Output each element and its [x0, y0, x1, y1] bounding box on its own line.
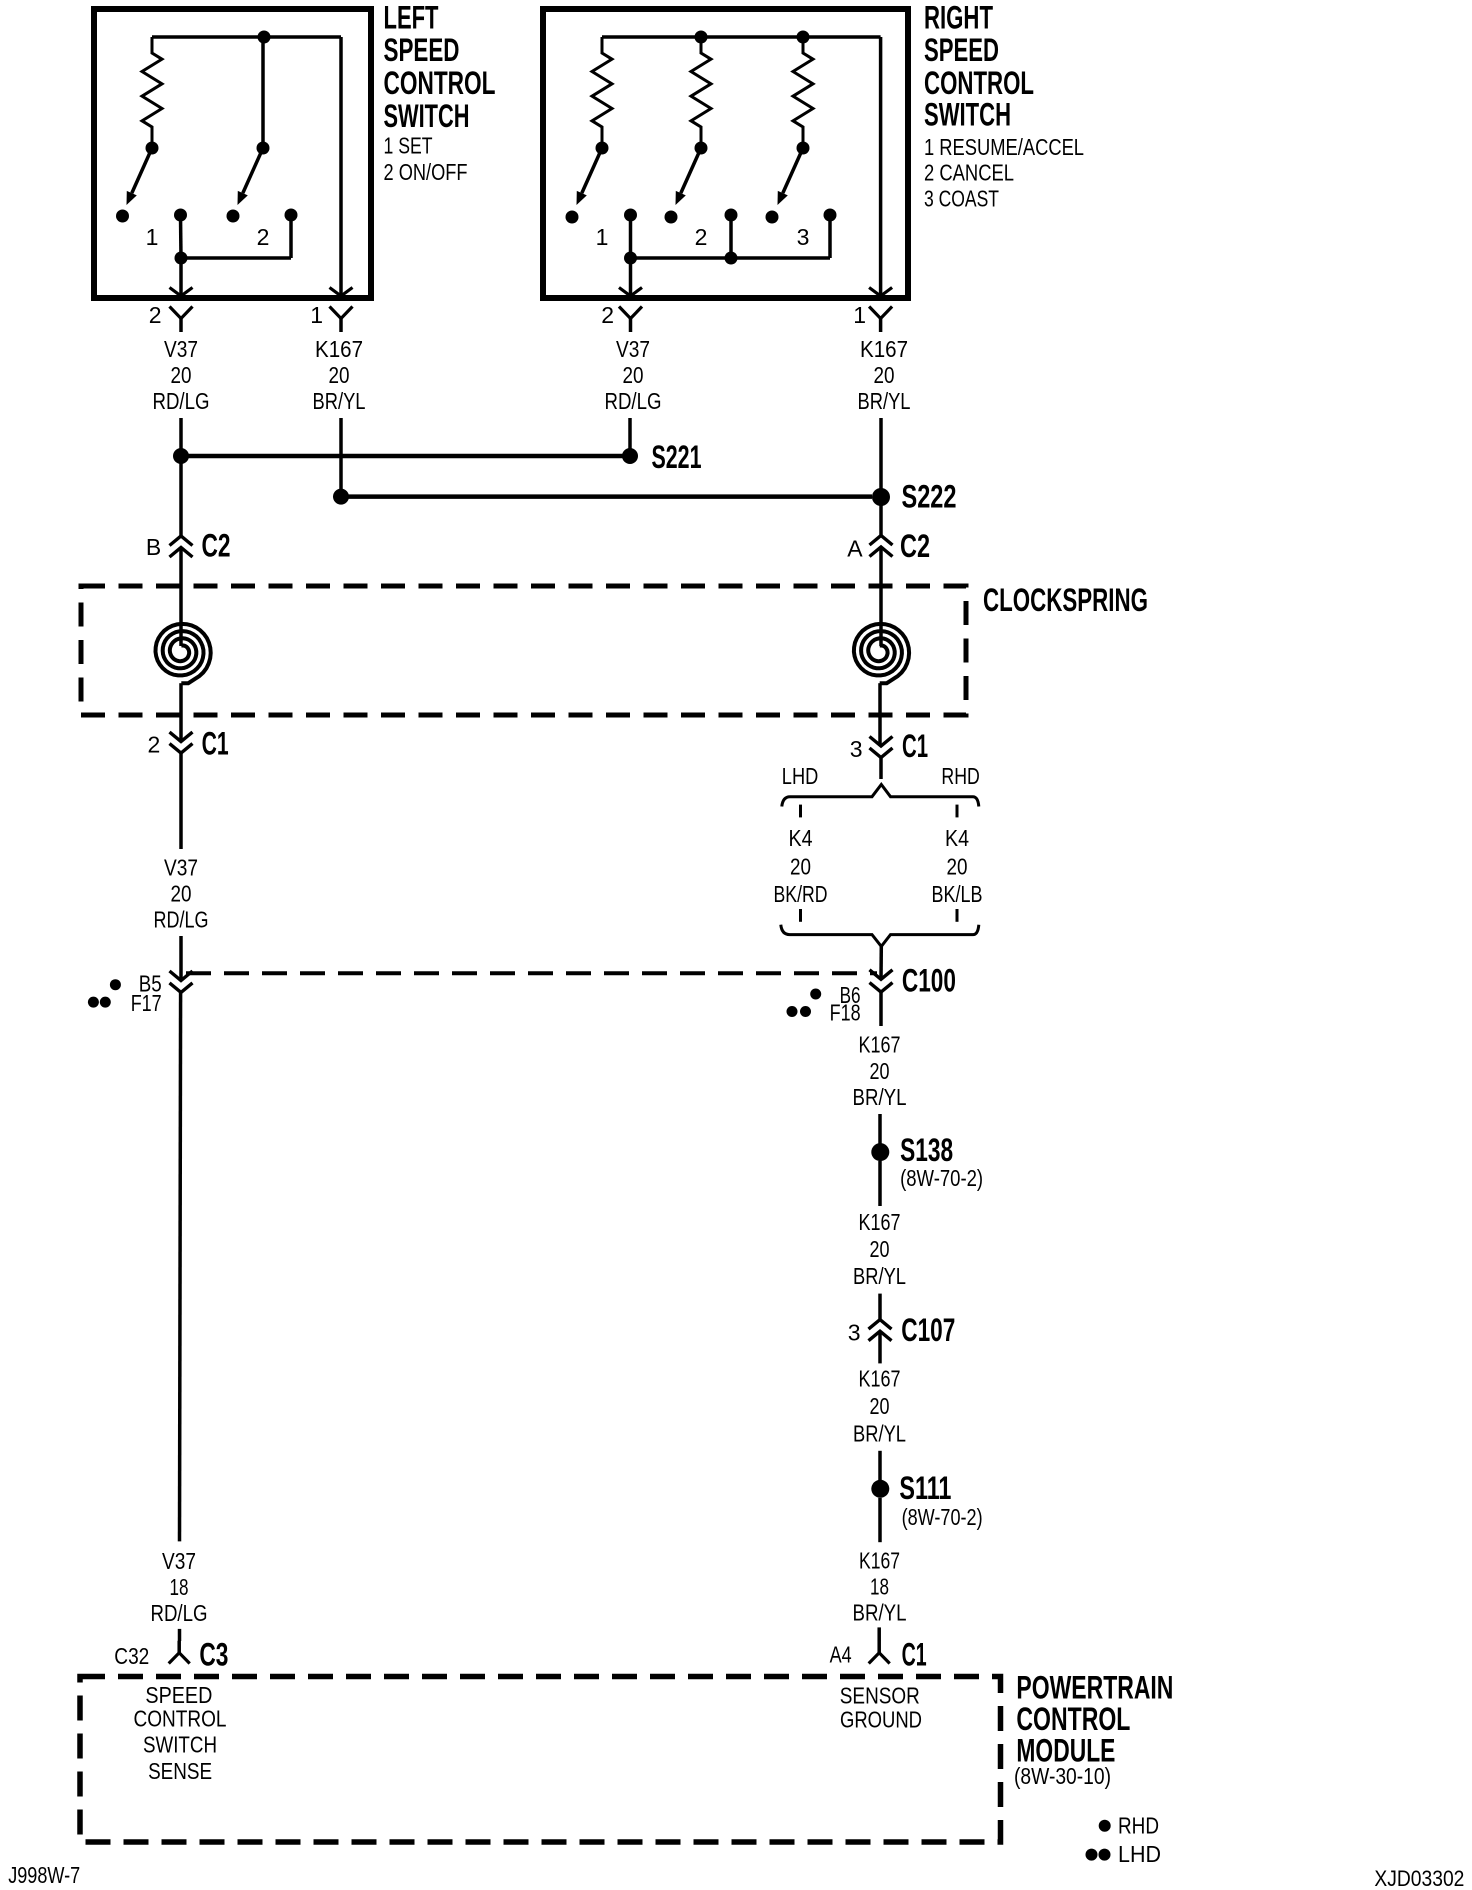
svg-text:C2: C2: [900, 528, 930, 564]
svg-text:RD/LG: RD/LG: [151, 1600, 208, 1626]
svg-text:RHD: RHD: [941, 763, 979, 789]
svg-text:A4: A4: [830, 1642, 852, 1668]
svg-text:SPEED: SPEED: [924, 32, 999, 68]
svg-text:BK/LB: BK/LB: [932, 881, 983, 907]
svg-text:2: 2: [148, 732, 161, 758]
svg-text:K167: K167: [315, 336, 363, 362]
svg-text:3: 3: [850, 736, 863, 762]
svg-text:20: 20: [790, 854, 811, 880]
svg-text:GROUND: GROUND: [840, 1707, 922, 1733]
svg-text:F17: F17: [131, 990, 162, 1016]
svg-text:V37: V37: [616, 336, 650, 362]
svg-text:SENSOR: SENSOR: [840, 1683, 920, 1709]
svg-text:C1: C1: [902, 1637, 927, 1673]
svg-text:C1: C1: [902, 728, 928, 764]
svg-text:K167: K167: [859, 1365, 901, 1391]
svg-text:(8W-70-2): (8W-70-2): [900, 1165, 983, 1191]
svg-text:SWITCH: SWITCH: [924, 97, 1011, 133]
svg-text:LEFT: LEFT: [384, 0, 439, 36]
svg-text:18: 18: [870, 1573, 889, 1599]
svg-text:BR/YL: BR/YL: [853, 1263, 906, 1289]
svg-text:2: 2: [695, 224, 708, 250]
svg-text:RD/LG: RD/LG: [605, 388, 662, 414]
svg-text:2 ON/OFF: 2 ON/OFF: [384, 159, 468, 185]
svg-text:2: 2: [601, 302, 614, 328]
svg-text:20: 20: [870, 1058, 890, 1084]
svg-text:1: 1: [146, 224, 159, 250]
svg-text:20: 20: [870, 1236, 890, 1262]
svg-text:2 CANCEL: 2 CANCEL: [924, 160, 1014, 186]
svg-text:20: 20: [171, 880, 192, 906]
svg-text:20: 20: [171, 362, 192, 388]
svg-text:1 SET: 1 SET: [384, 132, 433, 158]
svg-text:3 COAST: 3 COAST: [924, 186, 999, 212]
svg-text:1: 1: [853, 302, 866, 328]
svg-text:1: 1: [596, 224, 609, 250]
svg-text:20: 20: [623, 362, 644, 388]
svg-text:CONTROL: CONTROL: [134, 1706, 227, 1732]
svg-text:B: B: [146, 534, 161, 560]
svg-text:C3: C3: [199, 1637, 228, 1673]
svg-text:1 RESUME/ACCEL: 1 RESUME/ACCEL: [924, 134, 1084, 160]
svg-text:20: 20: [947, 854, 968, 880]
svg-text:BR/YL: BR/YL: [853, 1084, 907, 1110]
svg-text:C2: C2: [202, 528, 231, 564]
svg-text:K167: K167: [859, 1209, 901, 1235]
svg-text:3: 3: [848, 1319, 861, 1345]
svg-text:K4: K4: [945, 825, 969, 851]
svg-text:C32: C32: [114, 1643, 149, 1669]
svg-text:RIGHT: RIGHT: [924, 0, 993, 36]
svg-text:CONTROL: CONTROL: [924, 65, 1034, 101]
svg-text:J998W-7: J998W-7: [8, 1862, 80, 1888]
svg-text:BR/YL: BR/YL: [853, 1420, 906, 1446]
svg-text:C107: C107: [901, 1312, 955, 1348]
svg-text:K167: K167: [859, 1547, 900, 1573]
svg-text:V37: V37: [162, 1548, 196, 1574]
svg-text:2: 2: [257, 224, 270, 250]
svg-text:(8W-70-2): (8W-70-2): [902, 1504, 983, 1530]
svg-text:C100: C100: [902, 963, 956, 999]
svg-text:F18: F18: [830, 1000, 861, 1026]
svg-text:BR/YL: BR/YL: [853, 1599, 907, 1625]
svg-text:20: 20: [870, 1393, 890, 1419]
svg-text:SENSE: SENSE: [148, 1758, 212, 1784]
svg-text:SWITCH: SWITCH: [143, 1732, 217, 1758]
svg-text:C1: C1: [202, 726, 229, 762]
svg-text:V37: V37: [164, 854, 198, 880]
svg-text:LHD: LHD: [782, 763, 819, 789]
svg-text:S138: S138: [900, 1132, 953, 1168]
svg-text:RD/LG: RD/LG: [154, 906, 209, 932]
svg-text:V37: V37: [164, 336, 198, 362]
svg-text:K167: K167: [860, 336, 908, 362]
svg-text:2: 2: [149, 302, 162, 328]
svg-text:SPEED: SPEED: [145, 1682, 212, 1708]
svg-text:BR/YL: BR/YL: [858, 388, 911, 414]
svg-text:CONTROL: CONTROL: [384, 65, 496, 101]
svg-text:CLOCKSPRING: CLOCKSPRING: [983, 582, 1148, 618]
svg-text:K4: K4: [789, 825, 813, 851]
svg-text:20: 20: [874, 362, 895, 388]
svg-text:LHD: LHD: [1118, 1841, 1161, 1867]
svg-text:BK/RD: BK/RD: [774, 881, 828, 907]
svg-text:K167: K167: [859, 1032, 901, 1058]
svg-text:A: A: [847, 536, 863, 562]
svg-text:18: 18: [170, 1574, 189, 1600]
svg-text:RHD: RHD: [1118, 1813, 1159, 1839]
svg-text:S221: S221: [652, 439, 702, 475]
svg-text:S111: S111: [899, 1470, 951, 1506]
svg-text:(8W-30-10): (8W-30-10): [1014, 1763, 1111, 1789]
svg-text:SPEED: SPEED: [384, 32, 460, 68]
svg-text:3: 3: [797, 224, 810, 250]
svg-text:S222: S222: [902, 479, 957, 515]
svg-text:BR/YL: BR/YL: [313, 388, 366, 414]
svg-text:SWITCH: SWITCH: [384, 98, 470, 134]
svg-text:20: 20: [329, 362, 350, 388]
svg-text:1: 1: [310, 302, 323, 328]
svg-text:RD/LG: RD/LG: [153, 388, 210, 414]
svg-text:XJD03302: XJD03302: [1374, 1866, 1464, 1890]
